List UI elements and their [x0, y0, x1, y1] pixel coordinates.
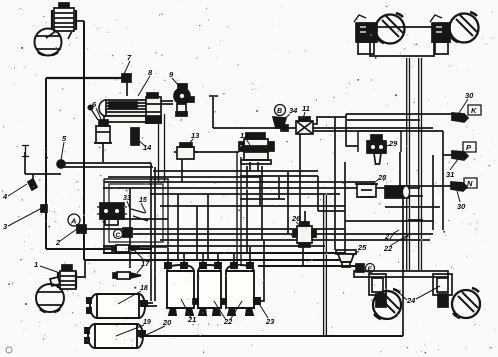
- wire step x=260: [259, 175, 261, 206]
- wire vertical x=237 pipe pair: [237, 152, 241, 266]
- air tank 21: [165, 263, 194, 315]
- wire silencer down x=403: [402, 198, 404, 336]
- svg-text:8: 8: [148, 68, 153, 77]
- svg-text:K: K: [471, 106, 477, 115]
- circle E: [366, 264, 375, 274]
- label 30 top: [459, 91, 474, 113]
- wire comp6 drop: [102, 143, 104, 162]
- wire step x=335: [334, 117, 336, 250]
- air tank 18: [87, 294, 147, 318]
- wire comp11 out to top run: [314, 114, 346, 124]
- circle B: [275, 105, 286, 116]
- wire pedal rod from ball 5: [61, 163, 153, 167]
- wire y=240: [160, 239, 430, 241]
- rear wheel top-right: [450, 12, 479, 43]
- wire fitting4 stub: [32, 174, 34, 184]
- label 6: [92, 100, 101, 119]
- fitting 7 on y=78: [122, 74, 131, 82]
- wire vertical x=345: [344, 162, 346, 253]
- funnel 25: [336, 250, 356, 267]
- wire step x=305: [304, 211, 306, 227]
- wire y=172: [153, 170, 318, 172]
- wire bottom run y=337: [144, 335, 403, 337]
- label 2: [55, 229, 77, 247]
- air tank 23: [226, 263, 260, 315]
- wire vertical x=433: [432, 155, 434, 230]
- brake chamber rear-bottom-right: [437, 278, 448, 307]
- brake drum FL-bottom: [36, 284, 64, 312]
- label 22 pipe: [383, 233, 408, 253]
- brake drum FL-top: [35, 29, 62, 56]
- wire comp12 drops: [250, 162, 258, 171]
- coupling K head: [452, 113, 468, 122]
- safety valve 29: [367, 135, 386, 164]
- wire rear axle drop x=408 (pipe pair): [407, 58, 410, 270]
- svg-text:C: C: [116, 232, 121, 239]
- svg-text:21: 21: [187, 315, 196, 324]
- label 13: [186, 131, 200, 147]
- two-section brake valve 12: [239, 133, 274, 164]
- wire tank23 stubs: [234, 247, 250, 263]
- brake chamber FL-bottom: [50, 265, 76, 289]
- svg-text:34: 34: [289, 106, 298, 115]
- wire y=186 to N: [400, 185, 455, 187]
- wire vertical x=166 compressor drop (pair): [159, 114, 165, 182]
- svg-text:20: 20: [162, 318, 172, 327]
- node I fitting 4: [28, 179, 37, 190]
- wire vertical x=208: [207, 194, 209, 260]
- label 14: [137, 139, 152, 152]
- wire vertical x=443: [442, 131, 444, 230]
- wire vertical x=84: [83, 21, 85, 260]
- svg-text:19: 19: [143, 319, 151, 326]
- svg-text:26: 26: [291, 214, 301, 223]
- svg-text:29: 29: [388, 139, 398, 148]
- label 20: [140, 318, 172, 338]
- label 12: [240, 131, 250, 145]
- svg-text:2: 2: [55, 238, 61, 247]
- wire P feed: [443, 154, 456, 156]
- valve 6: [88, 105, 112, 143]
- wire y=176: [240, 175, 318, 177]
- box N: [464, 178, 477, 188]
- rear axle bottom beam: [354, 271, 448, 277]
- wire comp29 out down: [399, 152, 401, 186]
- svg-text:3: 3: [3, 222, 8, 231]
- wire y=228 through node A: [76, 228, 345, 230]
- svg-text:A: A: [70, 217, 76, 226]
- label 19: [116, 319, 151, 336]
- coupling P head: [452, 151, 468, 160]
- wire step x=279: [278, 177, 280, 199]
- svg-text:24: 24: [406, 296, 416, 305]
- svg-text:31: 31: [446, 170, 454, 179]
- valve 13: [174, 143, 198, 159]
- wire chamber1 feed: [76, 260, 85, 277]
- silencer 27: [385, 186, 410, 198]
- air tank 19: [85, 324, 145, 348]
- wire tank21 stubs: [168, 248, 184, 263]
- svg-text:6: 6: [92, 100, 97, 109]
- wire vertical x=303: [302, 240, 304, 266]
- wire y=182: [104, 181, 375, 183]
- svg-text:B: B: [277, 108, 282, 115]
- node 3 fitting: [41, 205, 47, 212]
- wire vertical x=197: [196, 206, 198, 260]
- valve at C: [123, 228, 132, 237]
- wire y=219: [109, 218, 168, 220]
- wire loop rect around 29: [358, 130, 401, 152]
- svg-text:15: 15: [139, 197, 147, 204]
- label 1: [34, 260, 60, 273]
- svg-text:12: 12: [240, 131, 249, 140]
- label 23: [258, 302, 275, 326]
- wire vertical x=247: [246, 166, 248, 253]
- svg-text:13: 13: [191, 131, 200, 140]
- drain valve 17b: [113, 272, 141, 279]
- wire vertical x=130: [129, 188, 131, 268]
- chamber base rear-top-left: [358, 42, 374, 54]
- wire y=120: [347, 119, 420, 121]
- svg-text:9: 9: [169, 70, 174, 79]
- label 5: [61, 134, 67, 160]
- label 7: [124, 53, 132, 74]
- wire step x=318: [317, 176, 319, 211]
- wire x=346 drop: [346, 117, 358, 146]
- wire vertical x=300 valve11 down: [299, 134, 301, 229]
- wire y=266 to E: [258, 265, 356, 267]
- label 21: [181, 299, 196, 324]
- wire tank22 stubs: [203, 253, 218, 263]
- svg-text:P: P: [466, 143, 472, 152]
- wire y=207 right: [385, 206, 440, 208]
- wire fitting7 into compressor: [126, 82, 128, 96]
- label 33: [123, 195, 131, 209]
- wire y=128 long run: [213, 127, 433, 129]
- wire vertical x=153: [150, 163, 152, 301]
- wire clutch link y=174: [25, 173, 61, 175]
- box K: [468, 105, 481, 115]
- svg-text:18: 18: [140, 285, 148, 292]
- rear wheel top-left: [376, 13, 405, 44]
- label 17: [134, 250, 150, 273]
- coupling N head: [451, 182, 467, 191]
- brake chamber rear-bottom-left: [372, 278, 386, 307]
- brake valve 11: [296, 117, 313, 134]
- component 14 tap: [131, 128, 139, 145]
- scan artifact bottom-left: [6, 347, 12, 353]
- label 8: [138, 68, 153, 96]
- box P: [463, 142, 476, 152]
- wire 13 drop: [181, 159, 183, 182]
- wire bus y=249: [46, 248, 152, 250]
- node A fitting: [77, 225, 86, 233]
- label 11: [302, 104, 310, 119]
- fitting at E: [356, 264, 364, 272]
- svg-text:14: 14: [143, 143, 152, 152]
- enclosure box around 33/15: [104, 179, 168, 247]
- pressure regulator 9: [174, 84, 194, 116]
- fitting on line: [281, 125, 288, 131]
- label 34: [283, 106, 298, 120]
- label 15: [139, 197, 147, 213]
- wire vertical x=157: [154, 167, 156, 301]
- svg-text:N: N: [467, 179, 473, 188]
- wire vertical x=288: [287, 172, 289, 234]
- brake chamber FL-top: [46, 3, 76, 39]
- wire y=206: [160, 205, 345, 207]
- label I: [22, 146, 29, 157]
- svg-text:1: 1: [34, 260, 38, 269]
- wire junction box right: [408, 196, 423, 220]
- brake chamber rear-top-right: [430, 15, 450, 42]
- circle A: [68, 214, 80, 226]
- svg-text:30: 30: [457, 202, 466, 211]
- rear wheel bottom-right: [452, 288, 480, 318]
- svg-text:28: 28: [377, 173, 387, 182]
- label 27: [384, 230, 399, 241]
- wire box drop: [103, 247, 105, 253]
- wire y=199: [240, 198, 285, 200]
- label 3: [3, 208, 42, 231]
- wire y=188: [103, 187, 420, 189]
- chamber housing rear-bottom-left: [369, 274, 386, 295]
- circle C: [114, 230, 123, 240]
- wire bus y=260: [84, 259, 345, 261]
- wire y=177: [108, 176, 260, 178]
- chamber housing rear-bottom-right: [433, 274, 452, 295]
- bowl 28: [355, 184, 378, 197]
- wire rear axle drop x=420 (pipe pair): [419, 58, 422, 270]
- wire y=211: [318, 210, 345, 212]
- rear wheel bottom-left: [373, 289, 401, 319]
- label 4: [2, 184, 27, 201]
- valve assembly 33: [97, 203, 127, 225]
- wire bus y=253: [103, 252, 345, 254]
- svg-text:25: 25: [357, 243, 367, 252]
- wire tank18 link: [144, 303, 157, 306]
- svg-text:E: E: [368, 266, 373, 273]
- label 9: [169, 70, 180, 87]
- pipe 10 tick: [209, 95, 218, 97]
- wire y=131 run to x=443: [310, 130, 443, 132]
- svg-text:4: 4: [2, 192, 8, 201]
- tank side ports: [193, 299, 226, 304]
- svg-text:5: 5: [62, 134, 67, 143]
- wire y=234: [133, 233, 433, 235]
- label 26: [291, 214, 302, 227]
- svg-text:33: 33: [123, 195, 131, 202]
- air tank 22a: [198, 263, 221, 315]
- label 22 tanks: [214, 301, 242, 326]
- wire tank23 out: [260, 240, 264, 301]
- sensor 34: [273, 117, 286, 128]
- label 29: [386, 139, 398, 148]
- wire y=221 right: [345, 220, 433, 222]
- label 28: [371, 173, 387, 185]
- adjuster screws 15: [131, 209, 148, 221]
- wire comp9 outlet to x=213 down: [212, 97, 214, 128]
- valve 26: [293, 222, 316, 247]
- rear axle top housing: [370, 27, 434, 56]
- wire vertical x=262: [261, 166, 263, 240]
- drain valve 17a: [112, 245, 140, 252]
- svg-text:11: 11: [302, 104, 310, 113]
- label 25: [352, 243, 367, 256]
- wire y=246: [103, 245, 325, 247]
- wire vertical x=178: [177, 194, 179, 260]
- wire vertical x=325 (pair): [324, 194, 327, 336]
- label 24: [397, 286, 440, 305]
- svg-text:23: 23: [265, 317, 275, 326]
- node 5 ball: [57, 160, 65, 168]
- label 30 bottom: [457, 191, 466, 211]
- svg-text:7: 7: [127, 53, 132, 62]
- label 18: [118, 285, 148, 304]
- wire horizontal y=78: [46, 77, 126, 79]
- brake chamber rear-top-left: [354, 15, 377, 42]
- label 31: [446, 159, 458, 179]
- wire y=114 to K: [346, 114, 456, 117]
- chamber base rear-top-right: [435, 42, 448, 54]
- wire clutch line I: [24, 152, 26, 174]
- wire front-left chamber to corner: [71, 20, 84, 22]
- wire y=194: [150, 193, 340, 195]
- compressor 8: [99, 93, 173, 123]
- wire vertical x=46: [45, 78, 47, 249]
- svg-text:30: 30: [465, 91, 474, 100]
- wire 13 to 12: [194, 151, 239, 153]
